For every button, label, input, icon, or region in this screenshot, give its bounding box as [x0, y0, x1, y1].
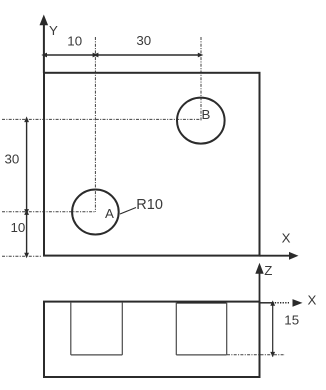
part outline front view	[44, 302, 260, 377]
svg-text:30: 30	[136, 33, 151, 48]
Z axis	[259, 273, 261, 301]
Y axis	[43, 24, 45, 73]
svg-text:30: 30	[5, 152, 20, 167]
circle B	[177, 98, 225, 144]
svg-text:10: 10	[11, 220, 26, 235]
leader line R10	[120, 208, 136, 215]
hole 1 right edge	[121, 302, 123, 355]
centerline vertical through A	[94, 37, 96, 212]
centerline vertical through B	[200, 37, 202, 120]
svg-text:15: 15	[284, 312, 299, 327]
hole 2 right edge	[226, 302, 228, 355]
left dimension line	[26, 119, 28, 256]
svg-text:Y: Y	[49, 23, 58, 38]
svg-text:X: X	[282, 231, 291, 246]
svg-text:X: X	[308, 292, 317, 307]
X axis front view	[260, 302, 274, 304]
hole 1 left edge	[70, 302, 72, 355]
svg-text:B: B	[202, 107, 211, 122]
centerline horizontal through B	[2, 118, 201, 120]
dimension 15 line	[272, 303, 274, 357]
dashed extension for dimension 15	[227, 354, 285, 356]
hole 2 bottom edge	[176, 354, 226, 356]
hole 2 left edge	[175, 302, 177, 355]
top dimension line	[44, 54, 201, 56]
extension dashed line at bottom edge	[2, 255, 42, 257]
centerline horizontal through A	[2, 211, 96, 213]
svg-text:R10: R10	[136, 197, 163, 213]
hole 2 top thick edge	[176, 301, 226, 304]
svg-text:Z: Z	[264, 263, 272, 278]
svg-text:10: 10	[67, 34, 82, 49]
hole 1 bottom edge	[71, 354, 123, 356]
circle A	[72, 190, 119, 235]
part outline top view	[44, 73, 260, 256]
X axis top view	[260, 255, 290, 257]
svg-text:A: A	[105, 206, 114, 221]
